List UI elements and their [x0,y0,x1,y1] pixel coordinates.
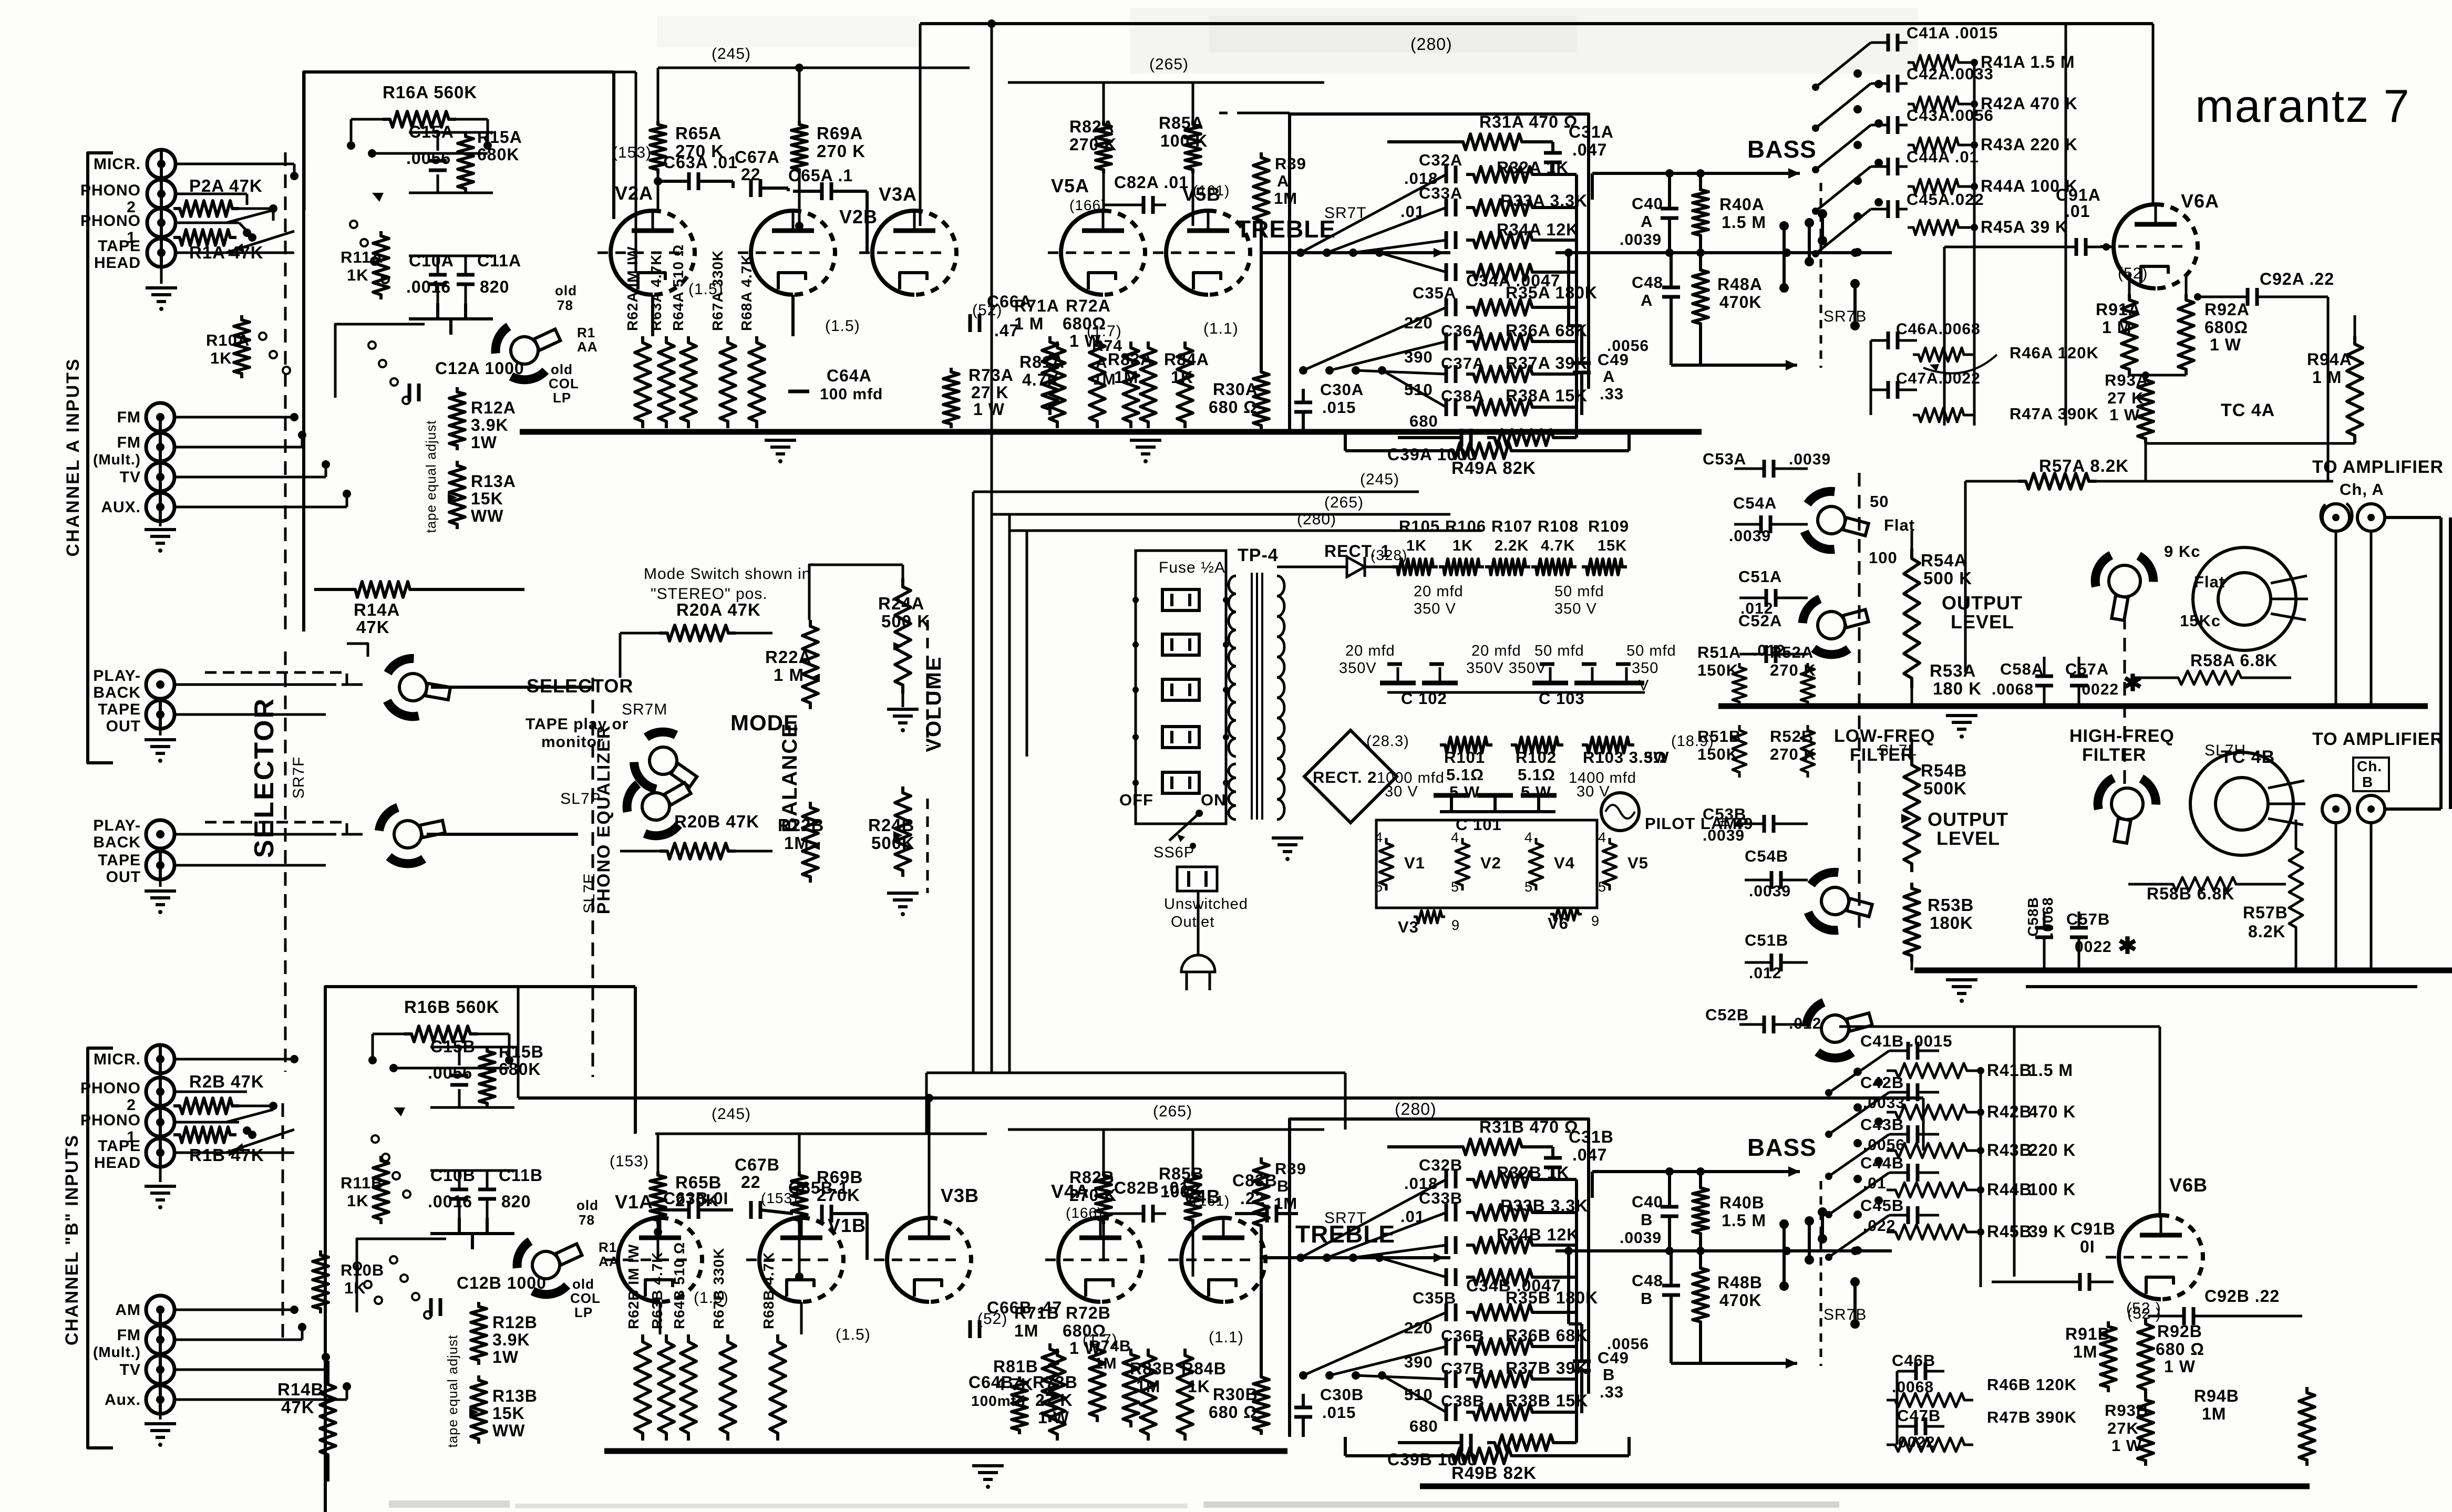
svg-text:C12B 1000: C12B 1000 [457,1273,547,1292]
svg-text:1M: 1M [1274,1194,1297,1213]
svg-text:.015: .015 [1322,398,1356,417]
svg-text:(265): (265) [1149,56,1189,73]
svg-text:R39: R39 [1275,1159,1306,1178]
svg-text:500K: 500K [1923,779,1967,798]
svg-text:R54B: R54B [1921,761,1967,780]
svg-text:270 K: 270 K [1069,135,1117,154]
svg-text:.01: .01 [1400,1207,1425,1226]
svg-text:47K: 47K [356,617,390,637]
svg-text:R47B 390K: R47B 390K [1987,1408,2077,1426]
svg-text:old: old [576,1197,599,1213]
svg-text:C43A.0056: C43A.0056 [1907,106,1994,125]
svg-text:SR7B: SR7B [1823,308,1867,325]
svg-text:350V 350V: 350V 350V [1466,660,1547,677]
svg-text:R32B 1K: R32B 1K [1497,1163,1570,1182]
svg-text:270 K: 270 K [1069,1186,1117,1205]
svg-text:(28.3): (28.3) [1366,733,1409,750]
svg-text:R106: R106 [1445,517,1486,535]
svg-text:4 7K: 4 7K [996,1375,1034,1394]
svg-text:R92A: R92A [2204,300,2250,319]
svg-text:.33: .33 [1600,1383,1624,1401]
svg-text:20 mfd: 20 mfd [1471,643,1521,659]
svg-text:TAPE: TAPE [98,237,141,255]
svg-text:C65B.1: C65B.1 [788,1178,849,1197]
svg-text:1M: 1M [1014,1321,1038,1340]
svg-text:.0068: .0068 [1992,681,2034,698]
svg-text:100: 100 [1869,548,1898,567]
svg-text:C45B: C45B [1860,1196,1904,1215]
svg-text:V1B: V1B [828,1215,866,1236]
svg-text:SR7F: SR7F [290,757,307,799]
svg-text:47K: 47K [281,1397,315,1417]
svg-text:B: B [1641,1289,1653,1308]
svg-text:COL: COL [549,376,579,391]
svg-text:PHONO: PHONO [80,1112,141,1129]
svg-text:(161): (161) [1193,182,1230,199]
svg-text:OUT: OUT [106,868,141,886]
svg-text:1K: 1K [344,1279,366,1297]
svg-text:V5A: V5A [1051,175,1089,196]
svg-text:510: 510 [1404,1385,1433,1404]
svg-text:R74B: R74B [1089,1338,1131,1355]
svg-text:R16B 560K: R16B 560K [404,997,499,1017]
svg-text:C35B: C35B [1413,1289,1456,1307]
svg-text:.0022: .0022 [2077,681,2119,698]
svg-text:680K: 680K [499,1060,541,1079]
svg-text:.0039: .0039 [1703,827,1745,844]
svg-text:C63A .01: C63A .01 [663,153,738,172]
svg-text:(153): (153) [610,1153,649,1170]
svg-text:C38B: C38B [1441,1392,1485,1410]
svg-text:C11A: C11A [477,251,521,270]
svg-text:510: 510 [1404,380,1433,399]
svg-text:C45A.022: C45A.022 [1907,190,1984,209]
svg-text:TO AMPLIFIER: TO AMPLIFIER [2312,457,2444,477]
svg-text:TREBLE: TREBLE [1236,215,1336,243]
svg-text:old: old [572,1276,594,1292]
svg-text:.0039: .0039 [1729,527,1771,545]
svg-text:R1B 47K: R1B 47K [189,1145,264,1165]
svg-text:C44B: C44B [1860,1154,1904,1172]
svg-text:5: 5 [1598,879,1606,895]
svg-text:R46B 120K: R46B 120K [1987,1375,2077,1394]
svg-text:R10A: R10A [206,331,250,349]
svg-text:V1A: V1A [615,1191,653,1213]
svg-text:.0016: .0016 [406,277,451,296]
svg-text:✱: ✱ [2118,933,2138,959]
svg-text:R40B: R40B [1719,1193,1765,1212]
svg-text:R13A: R13A [471,472,516,491]
svg-text:0I: 0I [2080,1237,2095,1256]
svg-text:R62B IM IW: R62B IM IW [625,1244,642,1329]
svg-text:C41A .0015: C41A .0015 [1907,24,1998,42]
svg-text:680Ω: 680Ω [2204,318,2248,337]
svg-text:20 mfd: 20 mfd [1414,583,1464,600]
svg-text:V3B: V3B [941,1185,979,1206]
svg-text:R64B 510 Ω: R64B 510 Ω [671,1242,687,1329]
svg-text:390: 390 [1404,1353,1433,1371]
svg-text:R71B: R71B [1014,1303,1059,1322]
svg-text:R2B 47K: R2B 47K [189,1072,264,1091]
svg-text:R51A: R51A [1697,643,1741,661]
svg-text:R53B: R53B [1928,895,1974,915]
svg-text:SS6P: SS6P [1153,844,1194,861]
svg-text:C57B: C57B [2066,910,2110,928]
svg-text:PHONO: PHONO [80,1080,141,1097]
svg-text:R1: R1 [577,325,595,340]
svg-text:R49B 82K: R49B 82K [1451,1463,1537,1483]
svg-text:1K: 1K [347,266,369,284]
svg-text:1W: 1W [492,1348,519,1366]
svg-text:V4: V4 [1554,854,1575,872]
svg-text:SL7L: SL7L [1878,742,1917,759]
svg-text:LP: LP [553,390,571,406]
svg-text:Flat: Flat [1884,516,1915,534]
svg-text:OUT: OUT [106,718,141,735]
svg-text:(Mult.): (Mult.) [93,451,141,468]
svg-text:TAPE play or: TAPE play or [526,716,629,733]
svg-text:4.7K: 4.7K [1541,537,1575,554]
svg-text:.0039: .0039 [1620,231,1662,248]
svg-text:C65A .1: C65A .1 [788,166,853,185]
svg-text:V5: V5 [1627,854,1649,872]
svg-text:R53A: R53A [1930,661,1976,680]
svg-text:(280): (280) [1410,35,1452,54]
svg-text:.01: .01 [2065,202,2090,221]
svg-text:VOLUME: VOLUME [922,656,945,752]
svg-text:R30B: R30B [1213,1385,1258,1404]
svg-text:1K: 1K [210,349,232,367]
svg-text:C47B: C47B [1897,1406,1941,1425]
svg-text:C37B: C37B [1441,1359,1485,1378]
svg-text:R69A: R69A [817,123,863,143]
svg-text:P2A 47K: P2A 47K [189,176,263,195]
svg-text:R67A 330K: R67A 330K [709,250,726,331]
svg-text:1.5 M: 1.5 M [1722,1211,1766,1230]
svg-text:old: old [555,283,577,298]
svg-text:470K: 470K [1719,293,1762,312]
svg-text:PHONO: PHONO [80,212,141,230]
svg-text:.015: .015 [1322,1403,1356,1422]
svg-text:TAPE: TAPE [98,1137,141,1155]
svg-text:.01: .01 [1400,202,1425,221]
svg-text:1W: 1W [471,433,497,452]
svg-text:R46A 120K: R46A 120K [2010,344,2099,362]
svg-text:1M: 1M [1114,368,1138,387]
svg-text:470K: 470K [1719,1291,1762,1310]
svg-text:C30A: C30A [1320,380,1364,399]
svg-text:R67B 330K: R67B 330K [710,1248,727,1329]
svg-text:R13B: R13B [492,1386,538,1405]
svg-text:C67A: C67A [735,148,780,167]
svg-text:1M: 1M [2202,1404,2226,1423]
svg-text:C49: C49 [1598,350,1629,369]
svg-text:0022: 0022 [2075,938,2112,956]
svg-text:5: 5 [1524,879,1533,895]
svg-text:C33A: C33A [1419,184,1462,202]
svg-text:V2B: V2B [839,206,878,227]
svg-text:C48: C48 [1632,1271,1663,1290]
svg-text:.0016: .0016 [428,1192,472,1211]
svg-text:R68A 4.7K: R68A 4.7K [738,254,755,331]
svg-text:(245): (245) [1360,471,1399,488]
svg-text:R42A 470 K: R42A 470 K [1981,94,2078,113]
svg-text:OFF: OFF [1119,791,1153,809]
svg-text:5.1Ω: 5.1Ω [1446,765,1484,784]
svg-text:R72B: R72B [1066,1303,1111,1322]
svg-text:680 Ω: 680 Ω [2156,1340,2204,1359]
svg-text:C41B .0015: C41B .0015 [1860,1032,1952,1050]
svg-text:C52A: C52A [1738,612,1782,630]
svg-text:R32A 1K: R32A 1K [1497,158,1569,177]
svg-text:1 W: 1 W [2164,1357,2196,1376]
svg-text:(245): (245) [712,45,751,63]
svg-text:R109: R109 [1588,517,1629,535]
svg-text:C49: C49 [1598,1349,1629,1367]
svg-text:1M: 1M [1094,1355,1117,1372]
svg-text:V3A: V3A [879,183,917,205]
svg-text:5W: 5W [1644,748,1670,767]
svg-text:monitor: monitor [541,733,604,751]
svg-text:R81A: R81A [1019,353,1065,371]
svg-text:A: A [1641,291,1653,309]
svg-text:5.1Ω: 5.1Ω [1518,765,1555,784]
svg-text:50 mfd: 50 mfd [1554,583,1604,600]
svg-text:9: 9 [1591,913,1600,929]
svg-text:R40A: R40A [1719,195,1765,214]
svg-text:A: A [1641,212,1653,231]
svg-text:C42A.0033: C42A.0033 [1907,65,1994,83]
svg-text:R62A IM IW: R62A IM IW [624,246,641,331]
svg-text:R52A: R52A [1770,643,1814,661]
svg-text:(153): (153) [612,144,652,161]
svg-text:4: 4 [1451,830,1459,845]
svg-text:C37A: C37A [1441,354,1485,372]
svg-text:22: 22 [741,1173,761,1192]
svg-text:270 K: 270 K [817,141,866,161]
svg-text:.012: .012 [1749,965,1781,982]
svg-text:R82B: R82B [1069,1168,1115,1187]
svg-text:(1.1): (1.1) [1209,1329,1244,1346]
svg-text:C67B: C67B [735,1155,780,1174]
svg-text:TP-4: TP-4 [1238,545,1279,565]
svg-text:1 W: 1 W [2210,335,2241,354]
svg-text:R68B 4.7K: R68B 4.7K [760,1251,777,1329]
svg-text:R12A: R12A [471,398,516,417]
svg-text:R31B 470 Ω: R31B 470 Ω [1479,1117,1579,1136]
svg-text:180 K: 180 K [1933,679,1982,698]
svg-text:4: 4 [1598,830,1606,845]
svg-text:(1.5): (1.5) [825,317,860,335]
svg-text:B: B [1603,1365,1615,1384]
svg-text:R15B: R15B [499,1042,544,1061]
svg-text:R57B: R57B [2243,903,2288,922]
svg-text:V6A: V6A [2181,190,2219,212]
svg-text:TREBLE: TREBLE [1295,1220,1395,1248]
svg-text:1 W: 1 W [2109,406,2140,424]
svg-text:270 K: 270 K [1770,745,1816,763]
svg-text:1K: 1K [347,1192,369,1210]
svg-text:C32A: C32A [1419,151,1462,169]
svg-text:C51B: C51B [1745,931,1788,949]
svg-text:5 W: 5 W [1449,783,1480,801]
svg-text:R45A 39 K: R45A 39 K [1981,218,2068,236]
svg-text:R81B: R81B [993,1357,1038,1376]
svg-text:R92B: R92B [2157,1322,2202,1341]
svg-text:1K: 1K [1452,537,1473,554]
svg-text:R20A 47K: R20A 47K [676,600,761,619]
svg-text:220 K: 220 K [2028,1141,2076,1159]
svg-text:350V: 350V [1339,660,1377,677]
svg-text:350 V: 350 V [1414,600,1456,617]
svg-text:R41A 1.5 M: R41A 1.5 M [1981,53,2075,71]
svg-text:350 V: 350 V [1554,600,1597,617]
svg-text:BASS: BASS [1747,136,1817,163]
svg-text:C51A: C51A [1738,567,1782,586]
svg-text:A: A [1603,367,1615,386]
svg-text:350: 350 [1632,660,1658,677]
svg-text:C31B: C31B [1569,1127,1614,1146]
svg-text:R31A 470 Ω: R31A 470 Ω [1479,112,1578,131]
svg-text:V1: V1 [1404,854,1425,872]
svg-text:MICR.: MICR. [94,156,141,173]
svg-text:C63B.0I: C63B.0I [663,1189,728,1208]
svg-text:R11B: R11B [341,1174,384,1192]
svg-text:HIGH-FREQ: HIGH-FREQ [2069,726,2175,746]
svg-text:R48A: R48A [1717,275,1763,294]
svg-text:R14B: R14B [277,1380,324,1399]
svg-text:V2A: V2A [615,182,653,204]
svg-text:680Ω: 680Ω [1063,314,1106,333]
svg-text:9 Kc: 9 Kc [2164,542,2200,561]
svg-text:R1: R1 [599,1239,617,1255]
svg-text:HEAD: HEAD [94,1154,141,1172]
svg-text:C48: C48 [1632,273,1663,292]
svg-text:R44B: R44B [1987,1180,2032,1199]
svg-text:V6B: V6B [2169,1174,2208,1196]
svg-text:LEVEL: LEVEL [1951,611,2014,633]
svg-text:C10B: C10B [430,1166,476,1185]
svg-text:AUX.: AUX. [101,499,141,516]
svg-text:(265): (265) [1324,494,1364,511]
svg-text:15K: 15K [471,489,503,508]
svg-text:8.2K: 8.2K [2248,922,2286,941]
svg-text:(1.5): (1.5) [836,1326,871,1343]
svg-text:78: 78 [579,1212,595,1228]
svg-text:C58B: C58B [2025,897,2041,937]
svg-text:.0039: .0039 [1620,1229,1662,1247]
svg-text:R49A 82K: R49A 82K [1451,458,1536,478]
svg-text:C32B: C32B [1419,1156,1462,1174]
svg-text:R43A 220 K: R43A 220 K [1981,135,2078,154]
svg-text:15K: 15K [492,1404,525,1423]
svg-text:15K: 15K [1598,537,1627,554]
svg-text:R39: R39 [1275,154,1306,173]
svg-text:R43B: R43B [1987,1141,2032,1159]
svg-text:R47A 390K: R47A 390K [2010,405,2099,423]
svg-text:Aux.: Aux. [105,1391,141,1409]
svg-text:PLAY-: PLAY- [93,667,141,685]
svg-text:100 K: 100 K [2028,1180,2076,1199]
svg-text:AA: AA [577,339,598,355]
svg-text:C36A: C36A [1441,322,1485,340]
svg-text:1M: 1M [2073,1342,2097,1361]
svg-text:Ch.: Ch. [2357,758,2382,774]
svg-text:27 K: 27 K [971,383,1009,402]
svg-text:PLAY-: PLAY- [93,817,141,834]
svg-text:SR7M: SR7M [622,701,667,718]
svg-text:R94A: R94A [2307,350,2352,369]
svg-text:C10A: C10A [409,251,454,270]
svg-text:(1.1): (1.1) [1203,320,1239,337]
svg-text:3.9K: 3.9K [492,1330,530,1349]
svg-text:ON: ON [1201,791,1227,809]
svg-text:39 K: 39 K [2028,1222,2066,1241]
svg-text:680: 680 [1409,412,1438,430]
svg-text:OUTPUT: OUTPUT [1942,592,2023,614]
svg-text:1M: 1M [1274,189,1297,208]
svg-text:R34A 12K: R34A 12K [1497,220,1579,239]
svg-text:220: 220 [1404,314,1433,332]
svg-text:FM: FM [117,409,141,426]
svg-text:C11B: C11B [499,1166,543,1185]
svg-text:Mode Switch shown in: Mode Switch shown in [644,565,811,583]
svg-text:180K: 180K [1930,913,1973,933]
svg-text:R16A 560K: R16A 560K [383,82,477,102]
svg-text:TAPE: TAPE [98,852,141,869]
svg-text:A: A [1277,172,1289,190]
svg-text:50 mfd: 50 mfd [1534,643,1584,659]
svg-text:.047: .047 [1572,140,1607,159]
svg-text:9: 9 [1451,917,1460,933]
svg-text:LP: LP [574,1304,593,1320]
svg-text:R105: R105 [1399,517,1440,535]
svg-text:TAPE: TAPE [98,701,141,718]
svg-text:LEVEL: LEVEL [1936,827,2000,849]
svg-text:100 mfd: 100 mfd [820,386,883,403]
svg-text:1 M: 1 M [774,665,804,685]
svg-text:C46B: C46B [1892,1351,1935,1370]
svg-text:B: B [1641,1210,1653,1229]
svg-text:27K: 27K [2107,1419,2139,1437]
svg-text:R12B: R12B [492,1313,538,1332]
svg-text:R15A: R15A [477,128,522,147]
svg-text:C64A: C64A [827,366,872,385]
svg-text:tape equal adjust: tape equal adjust [445,1334,460,1447]
svg-text:R42B: R42B [1987,1102,2032,1121]
svg-text:CHANNEL A INPUTS: CHANNEL A INPUTS [63,357,83,556]
svg-text:R20B 47K: R20B 47K [674,812,759,831]
svg-text:(265): (265) [1153,1103,1192,1120]
svg-text:R33A 3.3K: R33A 3.3K [1500,191,1588,210]
svg-text:R34B 12K: R34B 12K [1497,1225,1579,1244]
svg-text:R94B: R94B [2194,1386,2239,1405]
svg-text:C54A: C54A [1733,494,1777,512]
svg-text:30 V: 30 V [1385,783,1418,800]
svg-text:R65A: R65A [675,123,722,143]
svg-text:1 M: 1 M [1014,314,1044,333]
svg-text:FM: FM [117,434,141,451]
svg-text:C36B: C36B [1441,1327,1485,1345]
svg-text:old: old [551,361,573,377]
svg-text:C 101: C 101 [1456,815,1502,834]
svg-text:R85A: R85A [1159,113,1204,132]
svg-text:C91B: C91B [2070,1219,2116,1238]
svg-text:Ch, A: Ch, A [2340,480,2384,499]
svg-text:SR7B: SR7B [1823,1306,1867,1323]
svg-text:3.9K: 3.9K [471,416,509,434]
svg-text:C82A .01: C82A .01 [1114,173,1189,192]
